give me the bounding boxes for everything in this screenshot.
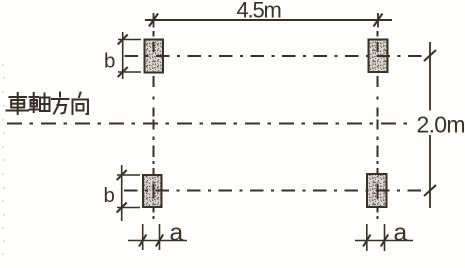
svg-text:b: b: [104, 184, 115, 207]
kanji 軸: [30, 93, 50, 112]
wheel patch bottom-left: [143, 175, 162, 207]
dim tick a left 2: [156, 235, 163, 247]
dimension b top: witness lines: [118, 32, 141, 79]
dim tick b bottom lower: [117, 203, 127, 213]
dim tick a left 1: [139, 235, 146, 247]
kanji 向: [73, 93, 89, 115]
dimension line 2.0m: [429, 42, 431, 208]
svg-text:a: a: [394, 220, 408, 247]
centerline bottom axle: [124, 190, 427, 192]
dim tick 2.0m top: [424, 50, 436, 61]
wheel patch bottom-right: [367, 174, 387, 207]
dim tick b top upper: [118, 35, 128, 45]
dim tick 2.0m bottom: [424, 185, 436, 196]
svg-text:2.0m: 2.0m: [417, 112, 465, 138]
dim tick b top lower: [118, 67, 128, 77]
svg-text:a: a: [170, 220, 184, 247]
dim tick a right 1: [363, 235, 370, 247]
dimension a right: witness lines: [355, 224, 413, 251]
dim tick a right 2: [381, 235, 388, 247]
wheel patch top-left: [145, 40, 164, 73]
centerline left wheels vertical: [153, 31, 155, 219]
svg-text:b: b: [104, 50, 115, 73]
centerline top axle: [125, 55, 428, 57]
kanji 方: [52, 93, 69, 114]
dimension b bottom: witness lines: [117, 165, 140, 221]
dim tick right: [374, 13, 383, 28]
dim tick left: [149, 13, 158, 28]
label 車軸方向 (axle direction) drawn as strokes: [7, 93, 89, 115]
scan artifact dotted edge: [2, 64, 5, 255]
wheel patch top-right: [369, 40, 388, 73]
dimension line 4.5m: [145, 19, 392, 21]
dimension a left: witness lines: [128, 224, 187, 250]
dim tick b bottom upper: [117, 170, 127, 180]
centerline right wheels vertical: [377, 31, 379, 219]
svg-text:4.5m: 4.5m: [237, 0, 281, 23]
centerline middle axle-direction: [7, 123, 410, 125]
kanji 車: [7, 93, 29, 114]
